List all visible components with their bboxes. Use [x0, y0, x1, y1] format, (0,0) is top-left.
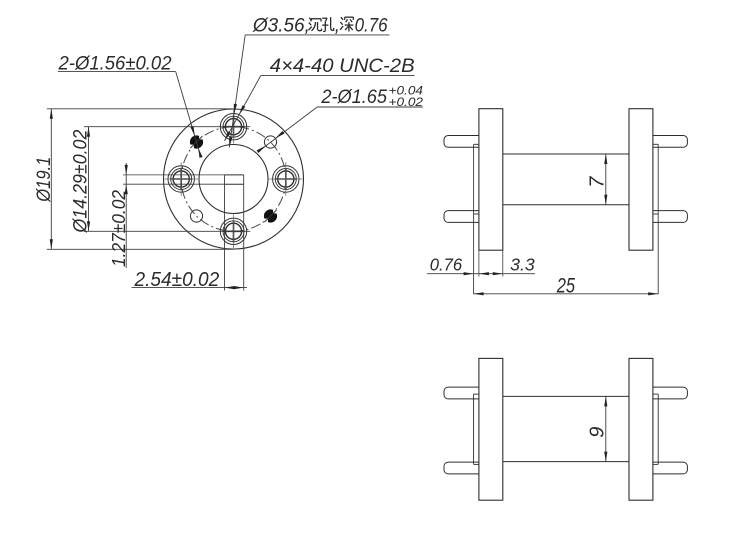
flange outer circle [164, 109, 304, 249]
dim 7 text [587, 176, 609, 188]
svg-text:Ø3.56,: Ø3.56, [252, 16, 310, 37]
hole S thick cross [223, 220, 245, 242]
side view B: barrel top line [503, 395, 629, 397]
label 2-dia1.65 leader [257, 107, 318, 153]
hole 4-40 UNC E: thread minor circle [278, 171, 294, 187]
side view A: barrel bottom line [503, 204, 629, 206]
svg-text:0.76: 0.76 [430, 255, 463, 275]
side view B: pin bottom-left [444, 462, 479, 474]
side view B: pin top-left [444, 387, 479, 399]
svg-text:25: 25 [556, 275, 575, 298]
hole 4-40 UNC N: thread major circle [223, 116, 244, 137]
dim 9 dimension line [604, 396, 607, 461]
hole 4-40 UNC W: counterbore circle [168, 166, 194, 192]
side view B: right hub edge [657, 394, 659, 464]
label dia3.56 depth text [355, 16, 388, 37]
dim 25 text [556, 275, 575, 298]
side view B: left hub ticks [474, 394, 479, 464]
dim 3.3 text [510, 255, 535, 275]
dim 0.76/3.3 ext line flange left face [478, 250, 480, 276]
hole 4-40 UNC W: thread major circle [171, 169, 192, 190]
hole 4-40 UNC S: thread major circle [223, 221, 244, 242]
side view B: barrel bottom line [503, 461, 629, 463]
svg-text:+0.04: +0.04 [389, 86, 424, 98]
pin hole 1.65 NE [264, 136, 276, 148]
label 4x4-40 underline [261, 74, 415, 76]
svg-text:2.54±0.02: 2.54±0.02 [134, 269, 220, 291]
dim 2.54 dimension line [132, 286, 248, 289]
hole 4-40 UNC N: thread minor circle [225, 119, 241, 135]
hole 4-40 UNC E: counterbore circle [273, 166, 299, 192]
dim dia19.1 text [34, 157, 55, 203]
center slot rectangle [225, 175, 244, 184]
hole W thick cross [170, 168, 192, 190]
dim dia14.29 dimension line [87, 127, 90, 232]
svg-text:4×4-40 UNC-2B: 4×4-40 UNC-2B [270, 56, 415, 77]
dim 0.76/3.3 ext line flange right face [502, 250, 504, 276]
svg-text:Ø14.29±0.02: Ø14.29±0.02 [71, 129, 92, 233]
hole 4-40 UNC W: thread minor circle [173, 171, 189, 187]
svg-text:3.3: 3.3 [510, 255, 535, 275]
dim 25 dimension line [474, 292, 659, 295]
label 2-dia1.65 underline [317, 106, 423, 108]
side view A: right flange [629, 109, 653, 251]
side view A: left flange [479, 109, 503, 251]
dim 0.76/3.3 dimension line [427, 272, 535, 275]
label dia3.56 CJK chars (counterbore, depth) [309, 16, 354, 37]
hole E centerlines [269, 162, 303, 195]
hole 4-40 UNC N: counterbore circle [220, 114, 246, 140]
dim dia14.29 extension line bottom [84, 230, 250, 232]
hole 4-40 UNC E: thread major circle [275, 169, 296, 190]
label 2-dia1.65 tol top [389, 86, 424, 98]
svg-text:7: 7 [587, 176, 609, 188]
svg-text:1.27±0.02: 1.27±0.02 [108, 189, 129, 267]
dim 2.54 text [134, 269, 220, 291]
hole 4-40 UNC S: counterbore circle [220, 218, 246, 244]
side view A: left hub edge + extension [473, 144, 475, 294]
svg-text:2-Ø1.65: 2-Ø1.65 [320, 87, 387, 108]
label 4x4-40 leader [225, 75, 261, 140]
flange center bore circle [199, 145, 268, 214]
side view A: pin top-left [444, 136, 479, 148]
label dia3.56 underline [245, 34, 389, 36]
slot right edge / extension line [243, 175, 245, 291]
bolt circle centerline [181, 127, 286, 232]
dim 1.27 dimension line [125, 163, 128, 268]
side view B: pin top-right [653, 387, 688, 399]
dim 0.76 text [430, 255, 463, 275]
side view B: pin bottom-right [653, 462, 688, 474]
hole N vertical centerline [233, 110, 235, 144]
label dia3.56 leader [229, 35, 245, 147]
dim 1.27 extension line bottom [123, 183, 225, 185]
side view B: right flange [629, 358, 653, 500]
label 2-dia1.65 text [320, 87, 387, 108]
slot left edge / extension line [224, 175, 226, 291]
hole S vertical centerline [233, 215, 235, 249]
svg-text:Ø19.1: Ø19.1 [34, 157, 55, 203]
dim dia14.29 text [71, 129, 92, 233]
side view B: right hub ticks [653, 394, 658, 464]
dim 1.27 extension line top [123, 174, 225, 176]
side view A: left hub ticks [474, 144, 479, 214]
side view B: left flange [479, 358, 503, 500]
label 2-dia1.56 text [58, 54, 172, 75]
side view A: pin top-right [653, 136, 688, 148]
pin hole 1.56 SE (filled) [264, 210, 276, 222]
svg-text:0.76: 0.76 [355, 16, 388, 37]
hole W centerlines [165, 162, 199, 195]
label 2-dia1.65 tol bottom [389, 97, 424, 109]
dim 9 text [587, 427, 609, 438]
label dia3.56 text [252, 16, 310, 37]
dim 7 dimension line [604, 154, 607, 205]
side view B: left hub edge [473, 394, 475, 464]
dim 1.27 text [108, 189, 129, 267]
dim dia19.1 extension line top [47, 108, 234, 110]
label 2-dia1.56 leader [176, 72, 203, 158]
hole 4-40 UNC S: thread minor circle [225, 223, 241, 239]
label 2-dia1.56 underline [58, 71, 176, 73]
dim dia19.1 extension line bottom [47, 248, 234, 250]
dim dia19.1 dimension line [50, 109, 53, 250]
side view A: pin bottom-left [444, 211, 479, 223]
pin hole 1.56 NW (filled) [190, 136, 202, 148]
svg-text:,: , [335, 16, 340, 37]
hole E thick cross [275, 168, 297, 190]
side view A: right hub ticks [653, 144, 658, 214]
hole N thick cross [223, 116, 245, 138]
pin hole 1.65 SW [190, 210, 202, 222]
side view A: right hub edge + extension [657, 144, 659, 294]
side view A: barrel top line [503, 153, 629, 155]
side view A: pin bottom-right [653, 211, 688, 223]
dim dia14.29 extension line top [84, 126, 250, 128]
svg-text:9: 9 [587, 427, 609, 438]
label 4x4-40 text [270, 56, 415, 77]
